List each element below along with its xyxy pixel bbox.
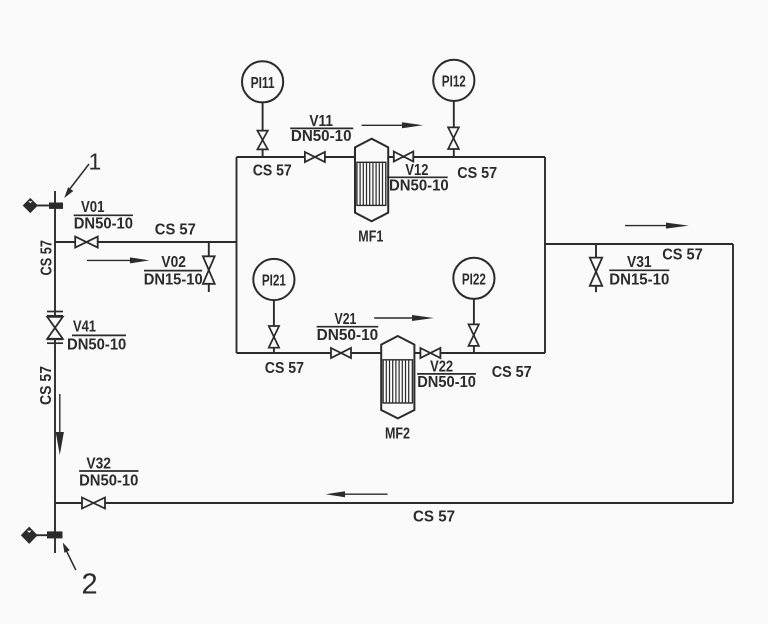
valve V32 bbox=[82, 498, 105, 509]
svg-text:DN15-10: DN15-10 bbox=[144, 272, 203, 289]
instrument PI21 bbox=[253, 259, 294, 300]
label valve V32 value bbox=[79, 455, 138, 489]
svg-text:DN50-10: DN50-10 bbox=[389, 178, 449, 195]
valve under PI11 bbox=[257, 131, 267, 150]
svg-text:V41: V41 bbox=[73, 319, 96, 336]
svg-text:V21: V21 bbox=[335, 311, 357, 328]
svg-text:CS 57: CS 57 bbox=[265, 360, 304, 377]
wire loop right edge bbox=[544, 157, 546, 353]
wire PI11 stem bbox=[262, 103, 264, 158]
label valve V21 value bbox=[317, 311, 379, 344]
svg-text:DN50-10: DN50-10 bbox=[74, 215, 133, 232]
label valve V12 value bbox=[387, 162, 449, 194]
svg-text:DN50-10: DN50-10 bbox=[417, 374, 476, 391]
wire PI12 stem bbox=[453, 101, 455, 157]
svg-text:CS 57: CS 57 bbox=[662, 246, 703, 263]
svg-text:PI22: PI22 bbox=[462, 272, 486, 289]
valve V01 bbox=[75, 237, 98, 248]
wire loop top edge right of MF1 bbox=[388, 156, 545, 158]
svg-text:PI11: PI11 bbox=[251, 75, 275, 92]
wire inlet stub 1 bbox=[37, 205, 50, 207]
wire PI22 stem bbox=[473, 299, 475, 353]
svg-text:V02: V02 bbox=[161, 254, 186, 271]
valve V11 bbox=[305, 152, 325, 162]
wire loop top edge left of MF1 bbox=[237, 156, 356, 158]
node leader arrow to connection 1 bbox=[64, 164, 89, 198]
svg-text:CS 57: CS 57 bbox=[155, 221, 196, 238]
instrument PI12 bbox=[433, 60, 474, 101]
label valve V02 value bbox=[144, 254, 203, 288]
wire loop bottom edge left of MF2 bbox=[237, 352, 382, 354]
svg-text:CS 57: CS 57 bbox=[457, 165, 497, 182]
wire bottom return line CS 57 bbox=[55, 502, 733, 504]
wire loop bottom edge right of MF2 bbox=[414, 352, 545, 354]
svg-text:1: 1 bbox=[89, 149, 102, 175]
svg-text:PI12: PI12 bbox=[442, 74, 466, 91]
svg-text:DN50-10: DN50-10 bbox=[67, 336, 126, 353]
node flange connection 1 bbox=[49, 203, 63, 209]
wire loop left edge bbox=[236, 157, 238, 353]
wire V31 stem and stub bbox=[595, 244, 597, 292]
label valve V01 value bbox=[74, 199, 133, 232]
node diamond symbol 2 bbox=[22, 527, 37, 543]
flow arrow down on left pipe bbox=[56, 394, 64, 455]
node leader arrow to connection 2 bbox=[63, 543, 76, 571]
instrument PI22 bbox=[453, 258, 494, 299]
wire inlet stub 2 bbox=[37, 534, 48, 536]
label valve V31 value bbox=[609, 254, 669, 288]
flow arrow left on bottom return line bbox=[326, 491, 388, 497]
flow arrow right on branch line bbox=[625, 223, 689, 229]
svg-text:DN50-10: DN50-10 bbox=[291, 128, 352, 145]
wire branch to right CS 57 bbox=[545, 243, 733, 245]
label valve V41 value bbox=[67, 319, 126, 354]
valve V22 bbox=[420, 348, 440, 358]
svg-text:CS 57: CS 57 bbox=[39, 240, 56, 276]
flow arrow right on V01 line bbox=[87, 257, 150, 263]
valve V41 with flanges bbox=[47, 312, 63, 344]
svg-text:DN50-10: DN50-10 bbox=[79, 473, 138, 490]
svg-text:V01: V01 bbox=[81, 199, 105, 216]
node diamond symbol 1 bbox=[23, 199, 37, 213]
wire line from inlet to loop (V01 line) bbox=[55, 241, 237, 243]
svg-text:CS 57: CS 57 bbox=[492, 364, 532, 381]
flow arrow right above MF2 bbox=[374, 315, 434, 321]
svg-text:V32: V32 bbox=[86, 455, 111, 472]
label valve V22 value bbox=[417, 359, 476, 391]
label valve V11 value bbox=[290, 113, 353, 145]
svg-text:2: 2 bbox=[82, 569, 98, 601]
svg-text:V31: V31 bbox=[627, 254, 652, 271]
valve V02 bbox=[203, 256, 215, 284]
svg-text:DN50-10: DN50-10 bbox=[317, 327, 379, 344]
flow arrow right above MF1 bbox=[362, 122, 423, 128]
valve V12 bbox=[394, 152, 414, 162]
valve under PI12 bbox=[448, 127, 459, 149]
filter MF1 bbox=[355, 139, 388, 222]
instrument PI11 bbox=[242, 61, 283, 102]
valve V21 bbox=[331, 348, 351, 358]
valve under PI21 bbox=[269, 326, 279, 348]
node flange connection 2 bbox=[47, 531, 63, 538]
svg-text:CS 57: CS 57 bbox=[38, 366, 55, 405]
wire PI21 stem bbox=[273, 300, 275, 353]
svg-text:DN15-10: DN15-10 bbox=[609, 272, 669, 289]
svg-text:CS 57: CS 57 bbox=[253, 162, 292, 179]
svg-text:MF2: MF2 bbox=[385, 426, 410, 443]
svg-text:PI21: PI21 bbox=[262, 273, 286, 290]
wire V02 stem and stub bbox=[208, 242, 210, 292]
valve under PI22 bbox=[469, 324, 479, 346]
wire left inlet vertical pipe CS 57 bbox=[54, 191, 56, 553]
svg-text:CS 57: CS 57 bbox=[413, 509, 455, 526]
wire right downcomer bbox=[732, 244, 734, 503]
svg-text:MF1: MF1 bbox=[358, 229, 383, 246]
valve V31 bbox=[590, 258, 602, 286]
filter MF2 bbox=[381, 336, 414, 418]
